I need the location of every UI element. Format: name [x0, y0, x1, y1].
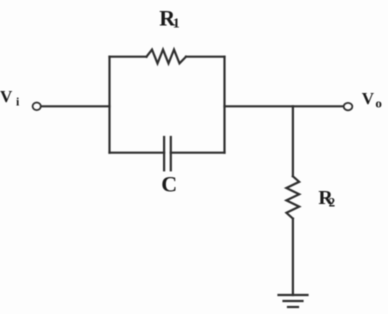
svg-text:i: i	[16, 95, 20, 109]
svg-text:V: V	[362, 89, 375, 108]
svg-text:2: 2	[329, 195, 336, 210]
svg-text:C: C	[161, 172, 177, 197]
svg-text:1: 1	[173, 16, 180, 31]
svg-text:V: V	[0, 87, 13, 106]
svg-text:o: o	[375, 96, 382, 111]
